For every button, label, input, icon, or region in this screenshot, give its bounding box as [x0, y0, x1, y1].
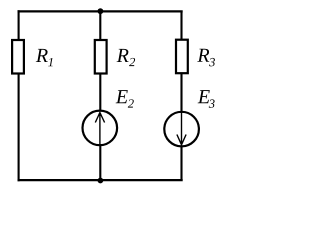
wire top bus	[18, 10, 183, 12]
label R2	[117, 49, 135, 66]
wire left branch	[18, 10, 20, 181]
label R3	[197, 49, 215, 67]
node bottom junction	[98, 178, 104, 184]
source E2	[83, 111, 118, 146]
label E2	[116, 90, 134, 108]
resistor R1	[12, 40, 24, 74]
resistor R3	[176, 40, 188, 73]
wire bottom bus	[18, 179, 183, 181]
node top junction	[98, 8, 104, 14]
wire right branch	[180, 11, 182, 180]
label R1	[36, 49, 53, 66]
wire middle branch	[99, 11, 101, 180]
source E3	[164, 112, 199, 147]
resistor R2	[95, 40, 107, 74]
label E3	[198, 90, 215, 108]
